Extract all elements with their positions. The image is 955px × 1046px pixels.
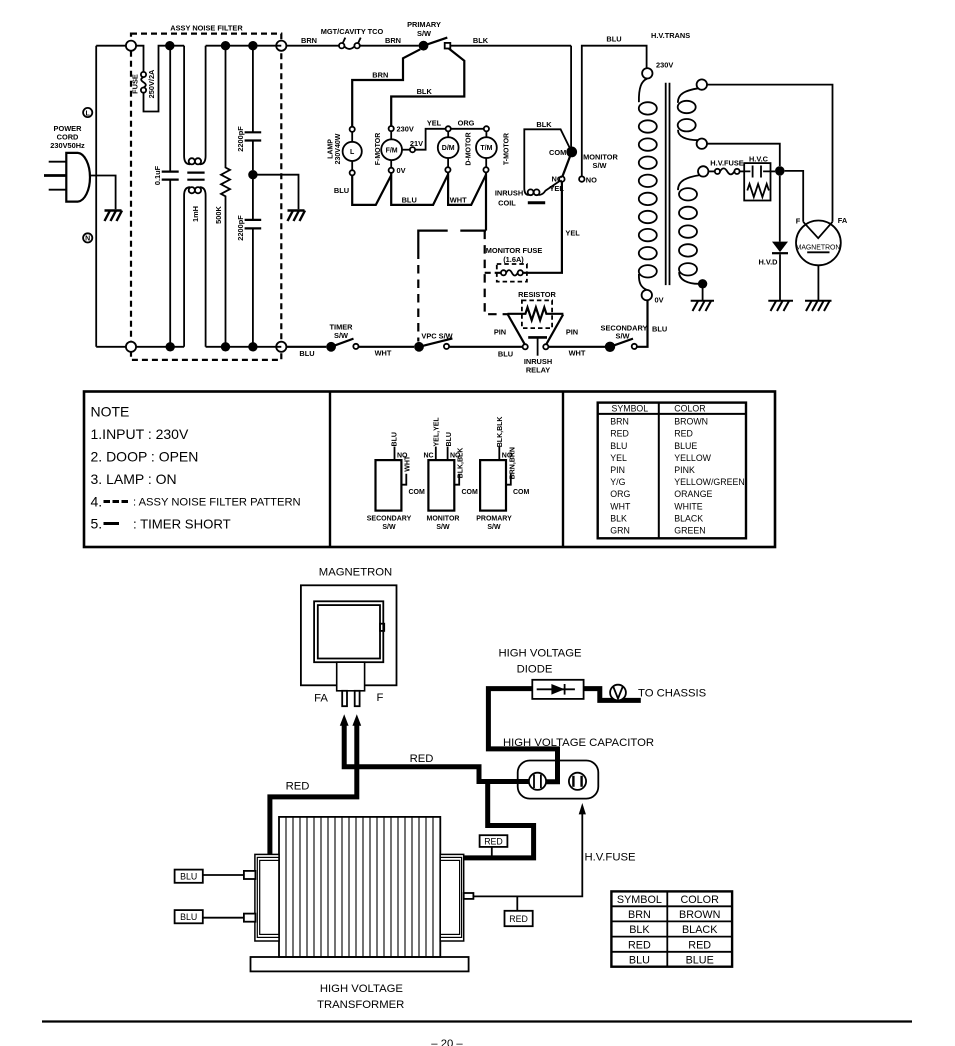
wire magnetron to ground: [817, 265, 819, 300]
svg-text:1mH: 1mH: [191, 206, 200, 222]
arrow F wire: [352, 714, 361, 726]
color table box: [598, 403, 746, 539]
switch SECONDARY S/W: [605, 342, 615, 352]
wire monitor fuse left lead dashed: [485, 272, 501, 274]
terminal HV winding top: [698, 166, 708, 176]
fuse F1: [141, 72, 146, 77]
wire L line from plug to filter top terminal: [96, 45, 129, 47]
diode H.V.D: [772, 242, 788, 253]
transformer body: [279, 817, 440, 957]
pin NC: [559, 176, 564, 181]
ground magnetron: [805, 301, 832, 311]
svg-text:F/M: F/M: [386, 147, 398, 154]
arrow FA wire: [340, 714, 349, 726]
svg-text:WHT: WHT: [375, 348, 392, 357]
wire node to magnetron F: [785, 171, 804, 222]
terminal filter top-right: [276, 41, 286, 51]
svg-text:MONITOR FUSE: MONITOR FUSE: [486, 246, 543, 255]
chassis screw: [610, 685, 626, 701]
wire BRN TCO to primary switch: [360, 45, 419, 47]
svg-text:BRN,BRN: BRN,BRN: [510, 447, 517, 479]
svg-text:2200pF: 2200pF: [236, 126, 245, 152]
svg-text:YELLOW: YELLOW: [674, 453, 711, 463]
wire RED FA to capacitor: [344, 724, 531, 782]
svg-text:Y/G: Y/G: [610, 477, 625, 487]
svg-text:BLU: BLU: [606, 35, 621, 44]
svg-text:N: N: [85, 236, 90, 243]
wire RED F to transformer: [270, 724, 357, 855]
switch diagram MONITOR S/W body: [428, 460, 454, 511]
svg-text:BLK: BLK: [536, 120, 552, 129]
terminal filter bottom-right: [276, 342, 286, 352]
transformer T1 filament winding: [678, 88, 698, 103]
relay contact right PIN: [543, 344, 548, 349]
pin lamp top: [350, 127, 355, 132]
svg-text:MAGNETRON: MAGNETRON: [319, 567, 392, 579]
assy noise filter dashed box: [131, 34, 281, 360]
SECTION: bottom pictorial: [175, 567, 733, 1012]
svg-text:HIGH VOLTAGE: HIGH VOLTAGE: [498, 648, 582, 660]
color table 2: [611, 891, 732, 966]
svg-text:BLU: BLU: [652, 324, 667, 333]
transformer T1 primary winding: [639, 79, 647, 103]
svg-text:(1.6A): (1.6A): [503, 255, 524, 264]
wire HVC to node: [771, 170, 776, 172]
inrush relay coil symbol: [528, 336, 547, 339]
svg-text:YEL: YEL: [610, 453, 627, 463]
color table text: [610, 404, 744, 536]
svg-text:INRUSH: INRUSH: [495, 189, 523, 198]
svg-text:2. DOOP : OPEN: 2. DOOP : OPEN: [91, 449, 199, 465]
wire WHT relay to secondary switch: [548, 346, 605, 348]
inrush coil core bar: [528, 201, 545, 204]
svg-text:TO CHASSIS: TO CHASSIS: [638, 687, 707, 699]
footer rule: [42, 1020, 912, 1022]
capacitor terminal left: [529, 773, 546, 790]
svg-text:FUSE: FUSE: [131, 74, 140, 94]
svg-text:BRN: BRN: [385, 36, 401, 45]
svg-text:BLK: BLK: [417, 87, 433, 96]
wire to ground: [702, 284, 704, 300]
node L: [83, 108, 92, 117]
svg-text:NOTE: NOTE: [91, 404, 130, 420]
svg-text:BLU: BLU: [498, 350, 513, 359]
SECTION: middle note boxes: [84, 392, 775, 548]
svg-text:SYMBOL: SYMBOL: [612, 404, 649, 414]
svg-text:BROWN: BROWN: [674, 417, 708, 427]
junction HV winding to ground: [698, 279, 707, 288]
svg-text:D/M: D/M: [442, 145, 455, 152]
svg-text:COM: COM: [409, 489, 426, 496]
svg-text:4.: 4.: [91, 494, 103, 510]
HV fuse arrow: [579, 803, 586, 814]
wire BLU secondary to 0V: [637, 301, 648, 347]
capacitor pictorial body: [518, 761, 599, 799]
note outer box: [84, 392, 775, 548]
svg-text:BLU: BLU: [299, 349, 314, 358]
pin T/M top: [484, 126, 489, 131]
promary COM pin: [506, 474, 511, 485]
secondary NO pin: [394, 447, 396, 461]
svg-text:YEL,YEL: YEL,YEL: [433, 417, 440, 447]
svg-text:BRN: BRN: [610, 417, 629, 427]
wire filter top mid: [206, 45, 282, 47]
svg-text:S/W: S/W: [417, 29, 431, 38]
svg-text:COLOR: COLOR: [674, 404, 705, 414]
svg-text:21V: 21V: [410, 139, 423, 148]
power cord prong middle (earth): [44, 174, 66, 177]
svg-text:0.1uF: 0.1uF: [153, 165, 162, 185]
svg-text:BLU: BLU: [629, 955, 650, 967]
transformer laminations: [286, 817, 433, 957]
svg-text:MGT/CAVITY TCO: MGT/CAVITY TCO: [321, 27, 384, 36]
terminal filament top: [697, 79, 707, 89]
svg-text:RED: RED: [628, 939, 651, 951]
svg-text:LAMP: LAMP: [328, 139, 335, 159]
ground transformer: [691, 301, 714, 311]
monitor NO pin: [447, 447, 449, 461]
junction mid caps: [248, 170, 257, 179]
monitor fuse dashed box: [497, 264, 527, 282]
magnetron prong FA: [342, 691, 347, 706]
svg-text:WHT: WHT: [404, 455, 411, 472]
svg-text:S/W: S/W: [436, 524, 450, 531]
note item4 dash symbol: [104, 500, 129, 503]
transformer lug BLU bottom: [244, 914, 256, 922]
magnetron anode line: [807, 251, 829, 253]
svg-text:S/W: S/W: [382, 524, 396, 531]
svg-text:BLUE: BLUE: [674, 441, 697, 451]
wire thick diode to capacitor: [488, 689, 557, 782]
inrush coil: [524, 188, 529, 195]
ground H.V.D: [768, 301, 793, 311]
transformer right bobbin: [440, 854, 464, 941]
capacitor C2 2200pF: [252, 46, 254, 170]
svg-text:F: F: [377, 692, 384, 704]
drive motor D/M: [438, 137, 459, 158]
resistor dashed box: [522, 300, 552, 328]
svg-text:BLU: BLU: [334, 186, 349, 195]
switch TIMER S/W: [326, 342, 336, 352]
svg-text:F: F: [796, 217, 801, 226]
junction top of R1: [221, 41, 230, 50]
svg-text:WHT: WHT: [450, 196, 467, 205]
terminal 230V: [642, 68, 652, 78]
magnetron prong F: [355, 691, 360, 706]
capacitor C1 0.1uF: [169, 46, 171, 347]
svg-text:MONITOR: MONITOR: [427, 516, 460, 523]
svg-text:230V: 230V: [397, 124, 414, 133]
svg-text:L: L: [350, 149, 355, 156]
choke L1 top winding: [183, 46, 185, 156]
junction top of C2: [248, 41, 257, 50]
wire fuse bottom jog: [144, 46, 185, 112]
svg-text:BLU: BLU: [446, 432, 453, 446]
wire BLU lamp to bus: [352, 175, 391, 205]
svg-text:RED: RED: [484, 836, 503, 846]
svg-text:BLU: BLU: [402, 196, 417, 205]
pin NO: [579, 176, 584, 181]
svg-text:230V: 230V: [656, 61, 673, 70]
svg-text:BLU: BLU: [180, 912, 197, 922]
magnetron mid frame: [314, 601, 383, 662]
svg-text:HIGH VOLTAGE: HIGH VOLTAGE: [320, 983, 404, 995]
wire ORG drive to timer motor: [451, 128, 484, 130]
resistor R1 500K: [221, 46, 230, 347]
wire terminal to fuse: [136, 46, 143, 72]
svg-text:2200pF: 2200pF: [236, 215, 245, 241]
svg-text:YEL: YEL: [565, 228, 580, 237]
wire plug earth to ground: [91, 176, 116, 210]
SECTION: top schematic: [44, 20, 848, 374]
svg-text:DIODE: DIODE: [517, 663, 553, 675]
resistor R2 element: [508, 307, 564, 320]
svg-text:L: L: [86, 110, 91, 117]
wire BLU filter to timer switch: [286, 346, 326, 348]
transformer base: [251, 957, 469, 971]
timer motor T/M: [476, 137, 497, 158]
junction bottom of R1: [221, 342, 230, 351]
svg-text:PIN: PIN: [566, 327, 578, 336]
switch MONITOR S/W COM: [566, 147, 577, 158]
svg-text:RELAY: RELAY: [526, 365, 550, 374]
capacitor C3 2200pF: [252, 175, 254, 347]
svg-text:BLU: BLU: [180, 872, 197, 882]
diode pictorial box: [532, 680, 583, 699]
svg-text:BLU: BLU: [392, 432, 399, 446]
svg-text:S/W: S/W: [487, 524, 501, 531]
choke L1 core: [187, 172, 204, 174]
secondary COM pin: [401, 474, 406, 485]
wire monitor fuse right lead YEL: [523, 182, 562, 273]
wire PIN left diagonal: [508, 315, 525, 345]
diode pictorial symbol: [537, 688, 575, 690]
svg-text:BLU: BLU: [610, 441, 627, 451]
svg-text:SYMBOL: SYMBOL: [617, 894, 662, 906]
svg-text:– 20 –: – 20 –: [431, 1038, 463, 1046]
monitor COM pin: [454, 474, 459, 485]
svg-text:BLK: BLK: [629, 924, 650, 936]
svg-text:230V40W: 230V40W: [335, 133, 342, 164]
wire caps midpoint to ground: [253, 175, 299, 210]
svg-text:BLK,BLK: BLK,BLK: [497, 417, 504, 448]
wire main input vertical: [95, 46, 97, 347]
wire timer motor down: [485, 172, 487, 230]
pin T/M bottom: [483, 167, 488, 172]
wire filter bottom mid: [136, 346, 281, 348]
promary NO pin: [498, 447, 500, 461]
choke L1 bottom winding: [183, 196, 185, 347]
wire dashed net to VPC switch: [417, 251, 419, 342]
wire filament top to magnetron FA: [707, 85, 833, 222]
wire thick capacitor to transformer: [464, 782, 534, 858]
svg-text:PIN: PIN: [610, 465, 625, 475]
wire N line from plug to filter bottom terminal: [96, 346, 129, 348]
svg-text:T/M: T/M: [480, 145, 492, 152]
svg-text:WHT: WHT: [610, 501, 631, 511]
node N: [83, 233, 92, 242]
boxed label BLU bottom: [175, 910, 203, 923]
svg-text:TRANSFORMER: TRANSFORMER: [317, 999, 404, 1011]
magnetron stem: [337, 662, 365, 691]
power cord plug P1: [66, 153, 90, 202]
wire net to VPC solid parts: [418, 231, 486, 251]
svg-text:S/W: S/W: [334, 331, 348, 340]
wire BLU NO up to transformer: [582, 46, 647, 177]
wire filament bottom to HV node: [707, 144, 780, 166]
terminal filter top-left: [126, 41, 136, 51]
pin F/M 230V: [389, 126, 394, 131]
pin lamp bottom: [350, 170, 355, 175]
svg-text:PINK: PINK: [674, 465, 695, 475]
svg-text:MAGNETRON: MAGNETRON: [796, 244, 841, 251]
svg-text:500K: 500K: [214, 206, 223, 224]
svg-text:FA: FA: [314, 693, 328, 705]
monitor NC pin: [435, 447, 437, 461]
svg-text:GRN: GRN: [610, 526, 630, 536]
terminal filament bottom: [697, 139, 707, 149]
svg-text:1.INPUT : 230V: 1.INPUT : 230V: [91, 426, 189, 442]
svg-text:H.V.FUSE: H.V.FUSE: [710, 158, 743, 167]
transformer left bobbin: [255, 854, 279, 941]
wire BLK corner to monitor COM: [570, 46, 572, 149]
wire YEL fan to drive motor: [415, 129, 446, 150]
svg-text:3. LAMP : ON: 3. LAMP : ON: [91, 471, 177, 487]
svg-text:PROMARY: PROMARY: [476, 516, 512, 523]
svg-text:NO: NO: [586, 175, 597, 184]
color table header line: [598, 413, 746, 415]
junction HV node: [775, 166, 785, 176]
wire BLU VPC to inrush relay: [449, 346, 522, 348]
color table divider: [658, 403, 660, 539]
svg-text:BLK: BLK: [610, 513, 627, 523]
svg-text:BLK,BLK: BLK,BLK: [458, 448, 465, 479]
terminal 0V: [642, 290, 652, 300]
wire BRN filter to TCO: [286, 45, 339, 47]
lamp L: [343, 142, 362, 161]
svg-text:BLACK: BLACK: [674, 513, 703, 523]
thermal cutout MGT/CAVITY TCO: [339, 43, 344, 48]
svg-text:H.V.FUSE: H.V.FUSE: [585, 851, 637, 863]
magnetron notch: [380, 624, 384, 631]
svg-text:ORG: ORG: [458, 119, 475, 128]
transformer lug BLU top: [244, 871, 256, 879]
boxed label RED lower: [516, 896, 518, 910]
svg-text:D-MOTOR: D-MOTOR: [465, 132, 472, 165]
svg-text:YELLOW/GREEN: YELLOW/GREEN: [674, 477, 744, 487]
svg-text:: TIMER SHORT: : TIMER SHORT: [133, 516, 231, 531]
junction top of C1: [165, 41, 174, 50]
switch VPC S/W: [414, 342, 424, 352]
wire BLK inrush coil lead: [524, 129, 570, 188]
magnetron outer case: [301, 585, 397, 685]
fuse F3 H.V.: [708, 170, 714, 172]
svg-text:HIGH VOLTAGE CAPACITOR: HIGH VOLTAGE CAPACITOR: [503, 737, 654, 749]
svg-text:SECONDARY: SECONDARY: [367, 516, 412, 523]
wire node down to diode: [779, 176, 781, 242]
svg-text:COM: COM: [513, 489, 530, 496]
power cord prong top: [49, 161, 67, 163]
svg-text:0V: 0V: [655, 296, 664, 305]
svg-text:ORG: ORG: [610, 489, 630, 499]
pin D/M top: [446, 126, 451, 131]
svg-text:BROWN: BROWN: [679, 909, 720, 921]
wire WHT timer to VPC: [359, 346, 415, 348]
svg-text:WHITE: WHITE: [674, 501, 702, 511]
svg-text:BLUE: BLUE: [686, 955, 714, 967]
svg-text:ORANGE: ORANGE: [674, 489, 712, 499]
svg-text:0V: 0V: [397, 166, 406, 175]
svg-text:BRN: BRN: [301, 36, 317, 45]
wire dashed net to monitor fuse: [485, 231, 508, 315]
svg-text:H.V.TRANS: H.V.TRANS: [651, 31, 690, 40]
svg-text:NC: NC: [424, 452, 434, 459]
svg-text:RED: RED: [688, 939, 711, 951]
wire BRN primary dot to lamp: [352, 49, 420, 126]
wire PIN right diagonal: [546, 315, 563, 345]
transformer T1 HV winding: [678, 175, 700, 190]
svg-text:S/W: S/W: [593, 161, 607, 170]
relay contact left PIN: [523, 344, 528, 349]
svg-text:RED: RED: [286, 780, 310, 792]
switch diagram SECONDARY S/W body: [376, 460, 402, 511]
pin F/M 21V: [410, 147, 415, 152]
junction bottom of C1: [166, 342, 175, 351]
terminal filter bottom-left: [126, 342, 136, 352]
note box divider 1: [329, 392, 331, 548]
svg-text:YEL: YEL: [427, 119, 442, 128]
wire WHT drive to bus: [448, 172, 486, 205]
svg-text:RED: RED: [674, 429, 693, 439]
transformer T1 core: [665, 83, 667, 285]
svg-text:BLACK: BLACK: [682, 924, 718, 936]
svg-text:GREEN: GREEN: [674, 526, 705, 536]
pin F/M 0V: [389, 168, 394, 173]
svg-text:RESISTOR: RESISTOR: [518, 290, 556, 299]
svg-text:S/W: S/W: [616, 331, 630, 340]
switch diagram PROMARY S/W body: [480, 460, 506, 511]
wire BLK primary square to fan motor: [391, 49, 464, 127]
switch PRIMARY S/W: [419, 41, 429, 51]
svg-text:H.V.C: H.V.C: [749, 154, 769, 163]
capacitor H.V.C box: [744, 163, 770, 200]
svg-text:COM: COM: [462, 489, 479, 496]
svg-text:PIN: PIN: [494, 327, 506, 336]
power cord prong bottom: [49, 189, 67, 191]
svg-text:250V/2A: 250V/2A: [147, 69, 156, 98]
wire HV fuse: [473, 813, 582, 896]
fuse F2 monitor: [501, 270, 506, 275]
svg-text:FA: FA: [838, 216, 848, 225]
svg-text:: ASSY NOISE FILTER PATTERN: : ASSY NOISE FILTER PATTERN: [133, 497, 301, 509]
note item5 dash symbol: [104, 522, 120, 525]
svg-text:BRN: BRN: [372, 71, 388, 80]
svg-text:VPC S/W: VPC S/W: [421, 331, 452, 340]
svg-text:COM: COM: [549, 148, 566, 157]
boxed label BLU top: [175, 870, 203, 883]
svg-text:H.V.D: H.V.D: [758, 257, 778, 266]
svg-text:RED: RED: [509, 914, 528, 924]
svg-text:ASSY NOISE FILTER: ASSY NOISE FILTER: [170, 24, 243, 33]
wire thick diode to chassis: [584, 689, 641, 701]
wire BLK primary to monitor corner: [450, 45, 571, 47]
transformer lug right: [464, 893, 474, 899]
svg-text:COIL: COIL: [498, 199, 516, 208]
capacitor terminal right: [569, 773, 586, 790]
svg-text:5.: 5.: [91, 516, 103, 532]
ground noise filter: [288, 211, 306, 222]
svg-text:230V50Hz: 230V50Hz: [50, 141, 85, 150]
